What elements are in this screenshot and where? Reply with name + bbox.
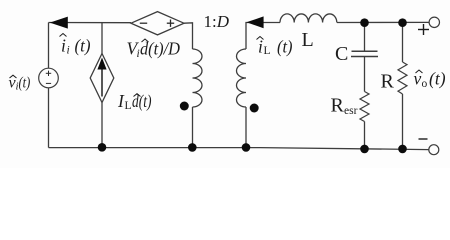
source minus sign	[46, 82, 51, 84]
junction dot load top	[398, 18, 407, 27]
wire inductor to terminal	[337, 21, 429, 23]
svg-text:L: L	[264, 45, 271, 57]
wire Resr to bottom	[364, 122, 366, 150]
svg-text:(t): (t)	[429, 69, 446, 89]
source plus sign	[46, 71, 51, 84]
wire primary bottom	[192, 107, 194, 148]
diamond minus sign	[140, 20, 174, 27]
svg-text:(t): (t)	[75, 36, 91, 56]
current source arrow head	[97, 58, 106, 70]
junction dot secondary bottom	[242, 143, 251, 152]
wire capacitor to Resr	[364, 57, 366, 92]
output plus sign	[418, 24, 429, 139]
svg-text:L: L	[125, 100, 132, 112]
wire secondary bottom	[245, 107, 247, 148]
wire load branch bottom	[402, 94, 404, 149]
svg-text:(t): (t)	[19, 75, 31, 92]
svg-text:i: i	[67, 45, 70, 57]
label ihat_i(t)	[60, 34, 91, 57]
output minus sign	[419, 138, 428, 140]
svg-text:d(t)/D: d(t)/D	[140, 39, 180, 59]
transformer primary polarity dot	[180, 102, 189, 111]
wire load branch top	[402, 23, 404, 63]
svg-text:L: L	[302, 29, 314, 51]
wire capacitor branch top	[364, 23, 366, 52]
svg-text:esr: esr	[344, 105, 358, 117]
svg-text:d(t): d(t)	[132, 91, 152, 111]
svg-text:(t): (t)	[277, 37, 293, 57]
wire secondary top corner	[246, 23, 280, 50]
transformer primary winding	[193, 49, 203, 107]
wire left vertical lower	[48, 88, 50, 148]
dependent voltage source V_i dhat(t)/D diamond	[131, 12, 184, 35]
diamond plus sign	[167, 22, 174, 24]
capacitor C plates	[351, 51, 378, 56]
junction dot load bottom	[398, 145, 407, 154]
output terminal bottom circle	[429, 145, 439, 155]
svg-text:o: o	[422, 78, 428, 90]
wire middle branch lower	[101, 103, 103, 148]
svg-text:R: R	[331, 95, 345, 117]
label V_i dhat(t)/D	[127, 39, 181, 61]
wire top-left horizontal	[49, 22, 132, 24]
svg-text:1:D: 1:D	[204, 12, 230, 31]
transformer secondary winding	[237, 49, 247, 107]
junction dot capacitor top	[360, 18, 369, 27]
resistor Resr zigzag	[360, 92, 369, 122]
wire bottom rail	[49, 148, 430, 150]
dependent current source I_L dhat(t) diamond	[90, 54, 114, 103]
arrow ihat_L(t) on secondary wire	[246, 16, 263, 28]
wire left vertical upper	[48, 23, 50, 69]
source vhat_i(t) circle	[39, 68, 59, 88]
svg-text:C: C	[335, 43, 348, 65]
label vhat_i(t)	[9, 75, 31, 93]
svg-text:i: i	[258, 37, 263, 57]
label ihat_L(t)	[257, 37, 293, 58]
junction dot primary bottom	[188, 143, 197, 152]
label Resr	[331, 95, 358, 118]
resistor R load zigzag	[398, 62, 407, 94]
wire middle branch upper	[101, 23, 103, 54]
output terminal top circle	[429, 17, 439, 27]
svg-text:R: R	[381, 71, 395, 93]
inductor L winding	[280, 14, 337, 23]
junction dot capacitor bottom	[360, 145, 369, 154]
label vhat_o(t)	[414, 69, 446, 91]
label I_L dhat(t)	[117, 91, 152, 112]
transformer secondary polarity dot	[250, 104, 259, 113]
current source arrow shaft	[101, 68, 103, 97]
arrow ihat_i(t) on top-left wire	[50, 17, 68, 29]
wire diamond to transformer corner	[184, 23, 193, 49]
junction dot middle branch bottom	[98, 143, 107, 152]
svg-text:i: i	[61, 36, 66, 56]
